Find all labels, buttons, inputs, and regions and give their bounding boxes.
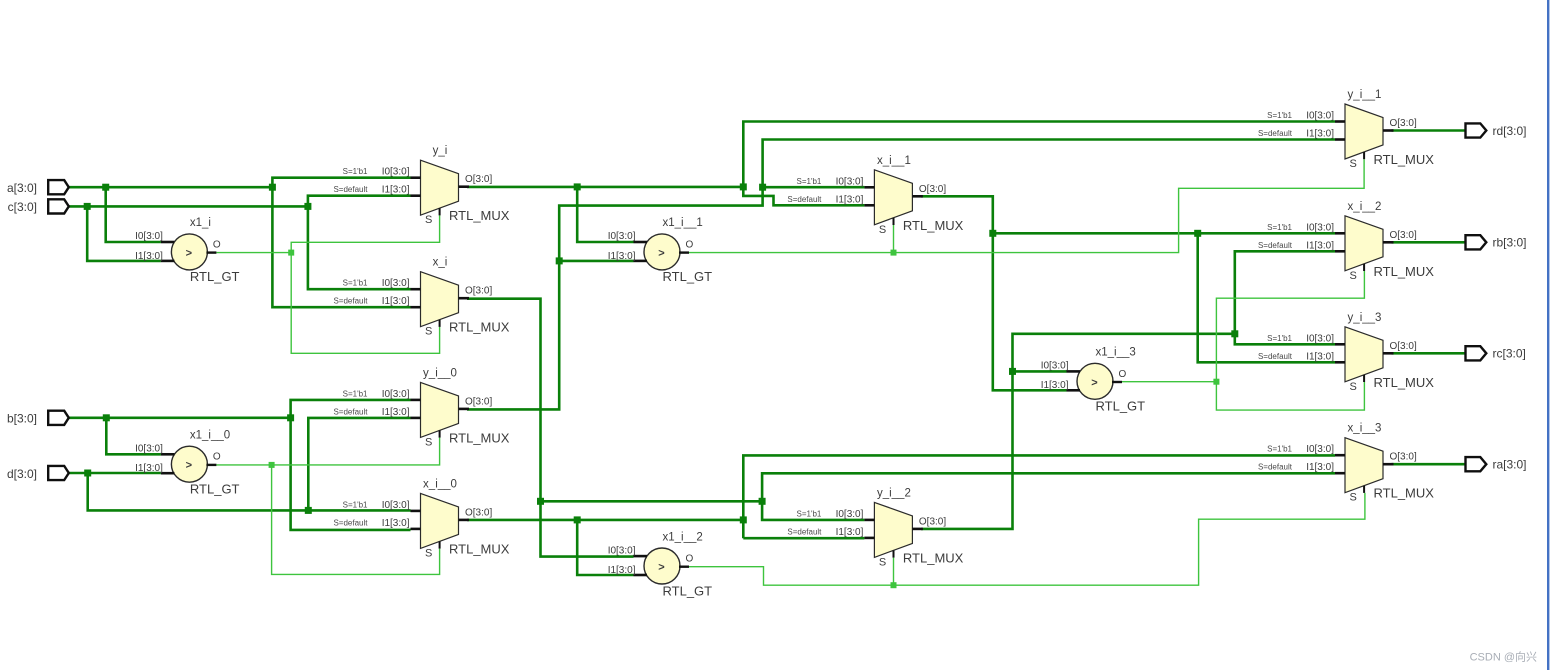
window border right edge — [1547, 0, 1549, 670]
wire net x0 from x_i__0 output — [467, 519, 743, 522]
junction net c at port fanout — [84, 203, 91, 210]
svg-text:S=default: S=default — [333, 185, 368, 194]
pin I1 of x1_i — [161, 260, 175, 263]
pin I0 of y_i__1 — [1335, 120, 1345, 123]
svg-text:S=1'b1: S=1'b1 — [797, 509, 822, 518]
wire net sel1 to y_i S — [291, 215, 439, 252]
svg-text:O[3:0]: O[3:0] — [1390, 230, 1417, 241]
mux y_i__2 — [787, 487, 963, 568]
svg-text:S: S — [1350, 270, 1357, 282]
svg-text:RTL_MUX: RTL_MUX — [449, 430, 510, 445]
wire net m2 jog to y_i__3 I0 — [1235, 334, 1335, 345]
svg-text:S=default: S=default — [333, 518, 368, 527]
svg-text:S=1'b1: S=1'b1 — [343, 500, 368, 509]
svg-text:rd[3:0]: rd[3:0] — [1493, 124, 1527, 138]
wire net rd from y_i__1 O to port rd — [1392, 129, 1466, 132]
pin O of x1_i — [206, 251, 216, 253]
junction net y at x1_i__1 branch — [574, 183, 581, 190]
wire net sel1 from x1_i O — [216, 252, 291, 254]
svg-text:rb[3:0]: rb[3:0] — [1493, 236, 1527, 250]
wire net c branch up to y_i I1 — [308, 196, 411, 207]
input port a[3:0] — [7, 180, 69, 195]
svg-text:>: > — [658, 247, 664, 259]
junction net x0 at riser — [740, 516, 747, 523]
svg-text:I0[3:0]: I0[3:0] — [836, 176, 864, 187]
svg-text:rc[3:0]: rc[3:0] — [1493, 347, 1526, 361]
junction net b at port fanout — [103, 414, 110, 421]
wire net m1 from x_i__1 output — [921, 196, 1067, 390]
comparator x1_i__1 (RTL_GT) — [608, 217, 712, 284]
svg-text:S=default: S=default — [333, 407, 368, 416]
svg-text:O: O — [1119, 369, 1127, 380]
input port c[3:0] — [8, 199, 69, 214]
svg-text:S: S — [425, 436, 432, 448]
wire net c branch to x1_i I1 — [87, 206, 161, 261]
junction net a at port fanout — [102, 184, 109, 191]
wire net a from port a to column1 — [69, 186, 273, 189]
junction net m2 at x1_i__3 branch — [1009, 368, 1016, 375]
svg-text:x1_i__1: x1_i__1 — [663, 217, 703, 229]
svg-text:x1_i__2: x1_i__2 — [663, 531, 703, 543]
pin I1 of x_i__3 — [1335, 472, 1345, 475]
svg-text:I1[3:0]: I1[3:0] — [135, 463, 163, 474]
pin O of x1_i__3 — [1112, 381, 1122, 383]
junction net b at column split — [287, 414, 294, 421]
pin I1 of x1_i__0 — [161, 472, 175, 475]
svg-text:c[3:0]: c[3:0] — [8, 200, 37, 214]
pin S of x_i__1 — [893, 218, 895, 225]
svg-text:S=1'b1: S=1'b1 — [1267, 334, 1292, 343]
wire net sel1 to x_i S — [291, 253, 439, 354]
svg-text:RTL_GT: RTL_GT — [663, 583, 713, 598]
wire net rc from y_i__3 O to port rc — [1392, 352, 1466, 355]
svg-text:x1_i__3: x1_i__3 — [1096, 347, 1136, 359]
svg-text:S=1'b1: S=1'b1 — [343, 279, 368, 288]
wire net x0 branch to x1_i__2 I1 — [577, 520, 633, 575]
wire net x riser to x_i__3 I1 — [762, 473, 1335, 501]
svg-text:b[3:0]: b[3:0] — [7, 412, 37, 426]
mux y_i__3 — [1258, 312, 1434, 393]
wire net b from port b — [69, 416, 291, 419]
pin I0 of x_i__0 — [411, 510, 421, 513]
svg-text:I1[3:0]: I1[3:0] — [1306, 240, 1334, 251]
wire net b branch to x1_i__0 I0 — [106, 418, 161, 455]
svg-text:S=default: S=default — [1258, 241, 1293, 250]
svg-text:O[3:0]: O[3:0] — [1390, 341, 1417, 352]
mux x_i — [333, 257, 509, 338]
pin I0 of x_i__2 — [1335, 232, 1345, 235]
svg-text:d[3:0]: d[3:0] — [7, 467, 37, 481]
pin S of y_i__1 — [1363, 152, 1365, 159]
wire net sel5 to y_i__3 S — [1216, 382, 1364, 410]
wire net m1 branch to y_i__3 I1 — [1198, 233, 1335, 362]
pin I0 of x1_i__3 — [1067, 370, 1081, 373]
junction net d at column split — [305, 507, 312, 514]
svg-text:I1[3:0]: I1[3:0] — [382, 407, 410, 418]
wire net d from port d to x1_i__0 I1 — [69, 472, 161, 475]
wire net b branch up to y_i__0 I0 — [291, 400, 411, 418]
pin O of y_i__1 — [1383, 129, 1394, 132]
svg-text:RTL_MUX: RTL_MUX — [1374, 375, 1435, 390]
pin O of y_i__3 — [1383, 352, 1394, 355]
pin I1 of x_i__2 — [1335, 250, 1345, 253]
svg-text:S=default: S=default — [1258, 129, 1293, 138]
svg-text:>: > — [658, 562, 664, 574]
svg-text:RTL_GT: RTL_GT — [190, 482, 240, 497]
svg-text:I0[3:0]: I0[3:0] — [135, 231, 163, 242]
pin I1 of y_i__1 — [1335, 138, 1345, 141]
svg-text:I1[3:0]: I1[3:0] — [608, 251, 636, 262]
wire net x east run — [541, 500, 763, 503]
svg-text:a[3:0]: a[3:0] — [7, 181, 37, 195]
svg-text:I0[3:0]: I0[3:0] — [382, 500, 410, 511]
pin O of y_i__2 — [912, 528, 923, 531]
pin S of y_i — [439, 208, 441, 215]
junction net m1 at y_i__3 branch — [1194, 230, 1201, 237]
svg-text:RTL_MUX: RTL_MUX — [1374, 152, 1435, 167]
svg-text:O[3:0]: O[3:0] — [1390, 118, 1417, 129]
svg-text:>: > — [186, 460, 192, 472]
svg-text:I0[3:0]: I0[3:0] — [382, 389, 410, 400]
svg-text:I0[3:0]: I0[3:0] — [608, 231, 636, 242]
svg-text:I0[3:0]: I0[3:0] — [1306, 222, 1334, 233]
svg-text:x1_i: x1_i — [190, 217, 211, 229]
junction net sel4 at y_i__2 S — [891, 582, 897, 588]
svg-text:>: > — [1091, 377, 1097, 389]
wire net y from y_i output — [467, 186, 743, 189]
svg-text:x_i__3: x_i__3 — [1348, 423, 1382, 435]
svg-text:S=1'b1: S=1'b1 — [1267, 445, 1292, 454]
pin I0 of x1_i__1 — [634, 241, 648, 244]
pin I1 of x_i — [411, 306, 421, 309]
junction net d at port fanout — [84, 470, 91, 477]
svg-text:O: O — [213, 452, 221, 463]
junction net sel1 fanout — [288, 250, 294, 256]
svg-text:I0[3:0]: I0[3:0] — [1041, 361, 1069, 372]
wire net y0 branch to x1_i__1 I1 — [559, 260, 633, 263]
wire net m1 east to x_i__2 I0 — [993, 232, 1335, 235]
pin S of y_i__0 — [439, 430, 441, 437]
svg-text:RTL_GT: RTL_GT — [190, 269, 240, 284]
comparator x1_i__0 (RTL_GT) — [135, 430, 239, 497]
junction net y0 at x_i__1 branch — [759, 184, 766, 191]
pin S of y_i__3 — [1363, 375, 1365, 382]
svg-text:RTL_MUX: RTL_MUX — [903, 550, 964, 565]
wire net m2 from y_i__2 output — [921, 334, 1235, 529]
pin I0 of x1_i__0 — [161, 453, 175, 456]
svg-text:I1[3:0]: I1[3:0] — [382, 296, 410, 307]
svg-text:I0[3:0]: I0[3:0] — [135, 444, 163, 455]
wire net sel4 from x1_i__2 O — [689, 493, 1365, 585]
pin I1 of y_i__2 — [864, 537, 874, 540]
wire net m2 riser to x_i__2 I1 — [1235, 251, 1335, 333]
mux x_i__3 — [1258, 423, 1434, 504]
pin O of x1_i__2 — [679, 566, 689, 568]
svg-text:S=1'b1: S=1'b1 — [343, 167, 368, 176]
svg-text:O[3:0]: O[3:0] — [465, 396, 492, 407]
wire net c branch down to x_i I0 — [308, 206, 411, 289]
pin I1 of y_i__0 — [411, 417, 421, 420]
junction net a at column split — [269, 184, 276, 191]
pin I0 of x_i — [411, 288, 421, 291]
svg-text:I1[3:0]: I1[3:0] — [836, 194, 864, 205]
svg-text:I0[3:0]: I0[3:0] — [382, 278, 410, 289]
svg-text:RTL_GT: RTL_GT — [1096, 399, 1146, 414]
pin I0 of x1_i__2 — [634, 555, 648, 558]
svg-text:O[3:0]: O[3:0] — [465, 286, 492, 297]
junction net x at east branch — [537, 498, 544, 505]
input port d[3:0] — [7, 466, 69, 481]
svg-text:S=1'b1: S=1'b1 — [343, 389, 368, 398]
svg-text:O[3:0]: O[3:0] — [919, 184, 946, 195]
svg-text:y_i__0: y_i__0 — [423, 367, 457, 379]
mux x_i__0 — [333, 478, 509, 559]
comparator x1_i__2 (RTL_GT) — [608, 531, 712, 598]
wire net sel4 to y_i__2 S — [893, 558, 895, 586]
pin I0 of y_i__3 — [1335, 343, 1345, 346]
svg-text:I0[3:0]: I0[3:0] — [608, 545, 636, 556]
wire net x from x_i output — [467, 299, 634, 557]
svg-text:S=1'b1: S=1'b1 — [1267, 111, 1292, 120]
svg-text:O: O — [213, 239, 221, 250]
svg-text:RTL_MUX: RTL_MUX — [449, 541, 510, 556]
svg-text:S=default: S=default — [787, 527, 822, 536]
wire net d to x_i__0 I0 — [308, 509, 410, 512]
svg-text:O[3:0]: O[3:0] — [465, 174, 492, 185]
pin O of x_i__0 — [459, 519, 470, 522]
junction net c at column split — [304, 203, 311, 210]
junction net sel5 fanout — [1213, 379, 1219, 385]
wire net a branch up to y_i I0 — [272, 178, 410, 188]
wire net y branch up to y_i__1 I0 — [743, 122, 1335, 187]
svg-text:O: O — [686, 239, 694, 250]
svg-text:I1[3:0]: I1[3:0] — [836, 527, 864, 538]
mux y_i__1 — [1258, 89, 1434, 170]
svg-text:x1_i__0: x1_i__0 — [190, 430, 230, 442]
wire net x jog to y_i__2 I0 — [762, 501, 864, 520]
pin I1 of x1_i__1 — [634, 260, 648, 263]
svg-text:y_i: y_i — [433, 145, 448, 157]
pin O of x_i__1 — [912, 195, 923, 198]
wire net y branch to x1_i__1 I0 — [577, 187, 633, 242]
wire net sel3 from x1_i__1 O — [689, 159, 1364, 252]
svg-text:S=1'b1: S=1'b1 — [797, 177, 822, 186]
svg-text:I1[3:0]: I1[3:0] — [608, 565, 636, 576]
wire net sel2 to x_i__0 S — [272, 465, 440, 575]
mux y_i__0 — [333, 367, 509, 448]
svg-text:I0[3:0]: I0[3:0] — [1306, 111, 1334, 122]
wire net m2 branch to x1_i__3 I0 — [1013, 370, 1067, 373]
pin I0 of y_i__2 — [864, 519, 874, 522]
junction net x0 at x1_i__2 branch — [574, 516, 581, 523]
svg-text:y_i__2: y_i__2 — [877, 487, 911, 499]
svg-text:RTL_MUX: RTL_MUX — [903, 218, 964, 233]
svg-text:I1[3:0]: I1[3:0] — [1041, 380, 1069, 391]
svg-text:S=default: S=default — [333, 297, 368, 306]
pin I0 of x_i__3 — [1335, 454, 1345, 457]
pin I0 of y_i — [411, 176, 421, 179]
wire net b branch down to x_i__0 I1 — [291, 418, 411, 530]
svg-text:I1[3:0]: I1[3:0] — [1306, 462, 1334, 473]
svg-text:I0[3:0]: I0[3:0] — [382, 167, 410, 178]
input port b[3:0] — [7, 411, 69, 426]
wire net sel2 from x1_i__0 O — [216, 464, 271, 466]
svg-text:O[3:0]: O[3:0] — [465, 507, 492, 518]
wire net x0 riser — [743, 455, 1335, 538]
comparator x1_i__3 (RTL_GT) — [1041, 347, 1145, 414]
wire net a branch to x1_i I0 — [106, 187, 161, 242]
pin I1 of y_i__3 — [1335, 361, 1345, 364]
wire net d branch up to y_i__0 I1 — [308, 418, 410, 511]
svg-text:RTL_MUX: RTL_MUX — [449, 320, 510, 335]
junction net x at riser — [759, 498, 766, 505]
pin I1 of x1_i__2 — [634, 574, 648, 577]
svg-text:y_i__1: y_i__1 — [1348, 89, 1382, 101]
svg-text:S: S — [425, 547, 432, 559]
svg-text:ra[3:0]: ra[3:0] — [1493, 458, 1527, 472]
svg-text:x_i__1: x_i__1 — [877, 155, 911, 167]
pin I1 of x_i__1 — [864, 204, 874, 207]
svg-text:I1[3:0]: I1[3:0] — [382, 185, 410, 196]
svg-text:I0[3:0]: I0[3:0] — [1306, 444, 1334, 455]
wire net x0 to y_i__2 I1 — [743, 537, 864, 540]
svg-text:I1[3:0]: I1[3:0] — [1306, 129, 1334, 140]
svg-text:RTL_MUX: RTL_MUX — [449, 208, 510, 223]
output port ra[3:0] — [1466, 457, 1527, 471]
svg-text:O[3:0]: O[3:0] — [1390, 452, 1417, 463]
wire net ra from x_i__3 O to port ra — [1392, 463, 1466, 466]
pin I0 of x1_i — [161, 241, 175, 244]
comparator x1_i (RTL_GT) — [135, 217, 239, 284]
wire net d branch down and east — [88, 473, 309, 510]
pin S of x_i__2 — [1363, 264, 1365, 271]
pin S of x_i__0 — [439, 541, 441, 548]
wire net sel5 from x1_i__3 O — [1122, 381, 1216, 383]
svg-text:S: S — [425, 214, 432, 226]
pin O of y_i — [459, 185, 470, 188]
pin I0 of y_i__0 — [411, 399, 421, 402]
junction net y at top riser — [740, 183, 747, 190]
svg-text:I1[3:0]: I1[3:0] — [1306, 351, 1334, 362]
svg-text:S: S — [879, 556, 886, 568]
pin O of x1_i__0 — [206, 464, 216, 466]
svg-text:S=1'b1: S=1'b1 — [1267, 223, 1292, 232]
pin O of x_i — [459, 297, 470, 300]
svg-text:CSDN @向兴: CSDN @向兴 — [1470, 650, 1537, 664]
svg-text:S=default: S=default — [1258, 352, 1293, 361]
svg-text:RTL_MUX: RTL_MUX — [1374, 486, 1435, 501]
pin S of y_i__2 — [893, 550, 895, 557]
svg-text:S: S — [879, 224, 886, 236]
svg-text:S: S — [425, 326, 432, 338]
pin I1 of x1_i__3 — [1067, 389, 1081, 392]
wire net y0 branch to x_i__1 I0 — [763, 186, 865, 189]
svg-text:O: O — [686, 554, 694, 565]
mux x_i__1 — [787, 155, 963, 236]
pin I1 of y_i — [411, 194, 421, 197]
svg-text:I0[3:0]: I0[3:0] — [836, 509, 864, 520]
wire net y jog to x_i__1 I1 — [743, 187, 864, 205]
wire net y0 from y_i__0 output — [467, 140, 1335, 410]
wire net sel2 to y_i__0 S — [272, 438, 440, 465]
wire net sel3 to x_i__1 S — [893, 225, 895, 253]
output port rc[3:0] — [1466, 346, 1526, 360]
svg-text:S=default: S=default — [787, 195, 822, 204]
pin S of x_i — [439, 320, 441, 327]
junction net sel3 at x_i__1 S — [891, 250, 897, 256]
svg-text:x_i__2: x_i__2 — [1348, 201, 1382, 213]
mux x_i__2 — [1258, 201, 1434, 282]
mux y_i — [333, 145, 509, 226]
svg-text:RTL_MUX: RTL_MUX — [1374, 264, 1435, 279]
junction net m1 at east branch — [989, 230, 996, 237]
pin I0 of x_i__1 — [864, 186, 874, 189]
svg-text:I1[3:0]: I1[3:0] — [135, 251, 163, 262]
wire net c from port c — [69, 205, 308, 208]
svg-text:x_i: x_i — [433, 257, 448, 269]
svg-text:>: > — [186, 247, 192, 259]
wire net sel5 to x_i__2 S — [1216, 271, 1364, 382]
svg-text:x_i__0: x_i__0 — [423, 478, 457, 490]
svg-text:S: S — [1350, 158, 1357, 170]
pin O of x1_i__1 — [679, 251, 689, 253]
pin S of x_i__3 — [1363, 486, 1365, 493]
pin O of x_i__2 — [1383, 241, 1394, 244]
svg-text:I1[3:0]: I1[3:0] — [382, 518, 410, 529]
svg-text:O[3:0]: O[3:0] — [919, 516, 946, 527]
junction net y0 at x1_i__1 branch — [556, 257, 563, 264]
svg-text:S=default: S=default — [1258, 463, 1293, 472]
pin O of x_i__3 — [1383, 463, 1394, 466]
junction net sel2 fanout — [269, 462, 275, 468]
wire net a branch down to x_i I1 — [272, 187, 410, 307]
svg-text:S: S — [1350, 492, 1357, 504]
svg-text:RTL_GT: RTL_GT — [663, 269, 713, 284]
junction net m2 at riser — [1231, 330, 1238, 337]
pin O of y_i__0 — [459, 408, 470, 411]
svg-text:S: S — [1350, 381, 1357, 393]
output port rd[3:0] — [1466, 123, 1527, 137]
wire net rb from x_i__2 O to port rb — [1392, 241, 1466, 244]
svg-text:I0[3:0]: I0[3:0] — [1306, 333, 1334, 344]
svg-text:y_i__3: y_i__3 — [1348, 312, 1382, 324]
pin I1 of x_i__0 — [411, 528, 421, 531]
output port rb[3:0] — [1466, 235, 1527, 249]
